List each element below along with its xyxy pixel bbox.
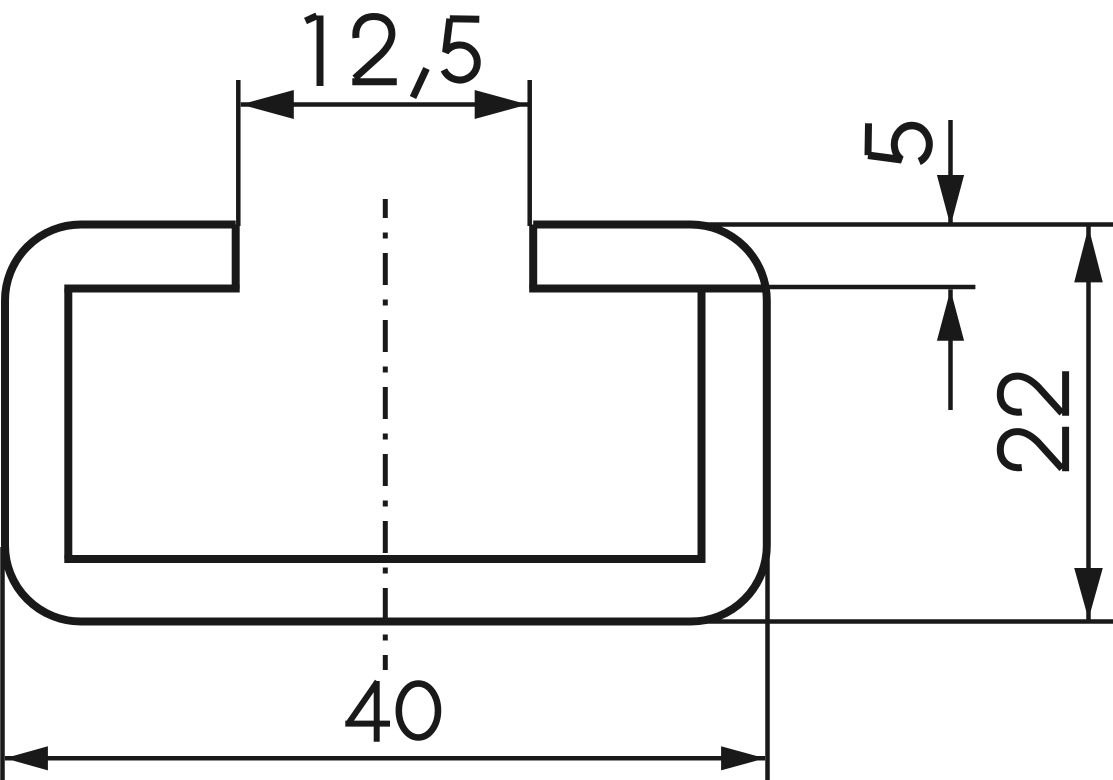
dim 5 down arrowhead (937, 175, 964, 226)
dim 22 down arrowhead (1074, 568, 1103, 619)
C-profile outer contour with slot opening (5, 225, 767, 622)
inner cavity bottom surface (64, 555, 705, 563)
inner cavity right wall (698, 289, 706, 560)
top edge extension line to right (688, 222, 1113, 227)
dim 22 dimension line (1086, 227, 1091, 620)
vertical centerline dash-dot (383, 199, 388, 670)
dim 40 left extension line (0, 547, 5, 780)
dim 40 right extension line (765, 547, 770, 780)
dim 40 label: digit 0 (399, 684, 438, 738)
dim 40 dimension line (5, 756, 765, 761)
dim 12,5 label: digit 1 (306, 16, 321, 87)
dim 40 right arrowhead (721, 746, 765, 770)
dim 12,5 left extension line (236, 80, 241, 226)
dim 12,5 right arrowhead (475, 90, 528, 119)
dim 5 extension line (inner surface extended right) (700, 285, 975, 290)
dim 12,5 label: digit 2 (352, 17, 397, 82)
dim 40 label: digit 4 (345, 681, 390, 742)
dim 12,5 right extension line (527, 80, 532, 226)
dim 5 upper dimension line (948, 120, 953, 226)
inner cavity left wall (64, 289, 72, 560)
dim 22 label: first rotated digit 2 (1000, 371, 1065, 416)
dim 5 label (rotated digit 5) (868, 123, 929, 161)
dim 22 up arrowhead (1074, 227, 1103, 282)
inner top surface left segment (64, 285, 239, 293)
slot right wall (529, 225, 537, 289)
bottom edge extension line to right (700, 619, 1113, 624)
dim 12,5 label: digit 5 (444, 19, 479, 80)
dim 12,5 left arrowhead (241, 90, 294, 119)
dim 12,5 label: comma (413, 69, 427, 98)
inner top surface right segment (529, 285, 764, 293)
slot left wall (232, 225, 240, 289)
dim 5 up arrowhead (937, 290, 964, 341)
dim 12,5 dimension line (241, 102, 528, 107)
dim 40 left arrowhead (5, 746, 48, 770)
dim 22 label: second rotated digit 2 (1000, 427, 1065, 472)
dim 5 lower dimension line (948, 290, 953, 411)
